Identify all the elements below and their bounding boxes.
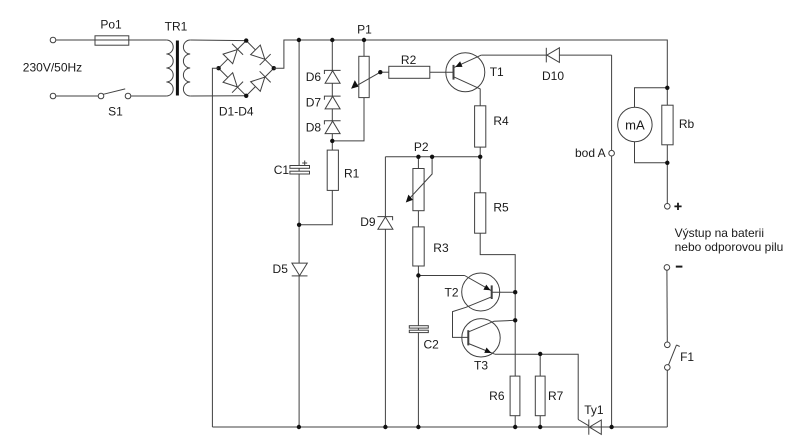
switch S1 [98, 93, 104, 99]
resistor R4 [475, 106, 486, 147]
svg-text:R6: R6 [489, 389, 505, 403]
zener diode D7 [325, 96, 340, 109]
junction P1 wiper [378, 70, 382, 74]
diode D5 [292, 263, 307, 276]
node bod A [609, 150, 615, 156]
node bridge right [272, 66, 276, 70]
svg-text:R2: R2 [401, 53, 417, 67]
svg-text:T1: T1 [490, 65, 504, 79]
junction T2 base [513, 290, 517, 294]
junction R1 bottom [297, 223, 301, 227]
bridge rectifier D1-D4 frame [219, 41, 274, 96]
junction top rail P1 [362, 38, 366, 42]
junction P2 top [416, 155, 420, 159]
svg-text:D1-D4: D1-D4 [219, 105, 254, 119]
resistor R1 [327, 150, 338, 190]
junction rail C2 [416, 425, 420, 429]
junction rail D9 [383, 425, 387, 429]
wire R3 junction to T2 emitter [418, 275, 464, 277]
zener diode D8 [325, 121, 340, 134]
wire bottom rail [212, 426, 667, 428]
svg-text:T3: T3 [474, 359, 488, 373]
svg-text:C2: C2 [424, 338, 440, 352]
svg-text:bod A: bod A [575, 146, 606, 160]
thyristor Ty1 [578, 420, 589, 426]
wire P1 wiper to R2 [380, 71, 389, 73]
svg-text:C1: C1 [274, 163, 290, 177]
minus output terminal [664, 265, 670, 271]
junction Rb bottom [665, 161, 669, 165]
node bridge left [216, 66, 220, 70]
wire P2 top [417, 157, 419, 169]
wire R7 bottom [539, 416, 541, 427]
wire secondary top to bridge [190, 39, 246, 42]
wire T1 collector to R4 R5 column [479, 106, 481, 193]
wire C1 D5 column [298, 40, 300, 427]
wire mA meter loop [635, 88, 668, 108]
potentiometer P1 [359, 56, 369, 97]
wire Rb branch [666, 88, 668, 163]
junction rail D5 [297, 425, 301, 429]
wire T1 emitter to D10 to bod A corner [481, 54, 611, 56]
transformer TR1 secondary winding [183, 40, 190, 96]
junction T3 collector [513, 318, 517, 322]
resistor R7 [535, 376, 545, 416]
junction rail bod A [609, 425, 613, 429]
transformer TR1 core [176, 41, 179, 96]
wire R6 bottom [514, 416, 516, 427]
input terminal top [50, 37, 56, 43]
svg-text:P2: P2 [414, 140, 429, 154]
wire bod A column [611, 55, 613, 427]
wire secondary bottom to bridge [190, 95, 246, 97]
svg-text:T2: T2 [444, 285, 458, 299]
junction R3 bottom [416, 273, 420, 277]
zener diode D6 [325, 71, 340, 84]
svg-text:TR1: TR1 [165, 20, 188, 34]
wire R5 bottom to T2 T3 column [480, 233, 515, 376]
junction R4 bottom [478, 155, 482, 159]
capacitor C1 [290, 166, 310, 169]
svg-text:D5: D5 [273, 262, 289, 276]
wire D9 column [384, 157, 386, 427]
fuse switch F1 [665, 342, 671, 348]
potentiometer P2 [413, 169, 424, 211]
capacitor C2 [409, 326, 428, 328]
wire P1 top [363, 40, 365, 56]
svg-text:mA: mA [625, 117, 645, 132]
svg-text:230V/50Hz: 230V/50Hz [23, 61, 82, 75]
junction R7 top [538, 352, 542, 356]
resistor R5 [475, 193, 486, 233]
wire P1 bottom [332, 98, 364, 141]
wire R4 bottom horizontal to P2 and D9 [385, 156, 480, 158]
zener diode D9 [378, 217, 393, 229]
transistor T2 [462, 273, 500, 311]
svg-text:D8: D8 [306, 121, 322, 135]
svg-text:R5: R5 [493, 201, 509, 215]
diode D1 top-left [222, 44, 243, 65]
svg-text:R7: R7 [548, 389, 564, 403]
wire R7 top [539, 354, 541, 376]
svg-text:D10: D10 [542, 69, 564, 83]
node bridge bottom [244, 94, 248, 98]
wire P2 to R3 [417, 211, 419, 227]
svg-text:F1: F1 [680, 350, 694, 364]
wire bridge plus up to top rail [274, 40, 299, 68]
wire T2 base to column [492, 291, 516, 293]
diode D4 bottom-right [250, 71, 271, 92]
svg-text:D6: D6 [306, 70, 322, 84]
transistor T1 [446, 53, 485, 92]
transistor T3 [462, 319, 500, 357]
wire T3 emitter to gate column [495, 354, 578, 419]
wire R2 to T1 [389, 71, 454, 73]
junction top rail C1 [297, 38, 301, 42]
junction R1 top [330, 139, 334, 143]
plus output terminal [665, 204, 671, 210]
svg-text:P1: P1 [357, 22, 372, 36]
svg-text:Výstup na baterii: Výstup na baterii [675, 226, 764, 240]
junction P2 wiper [430, 155, 434, 159]
svg-text:nebo odporovou pilu: nebo odporovou pilu [675, 240, 784, 254]
wire bridge minus to left rail [212, 68, 218, 427]
wire R1 branch [299, 141, 332, 225]
svg-text:Ty1: Ty1 [584, 403, 604, 417]
svg-text:Po1: Po1 [100, 18, 122, 32]
svg-text:Rb: Rb [679, 117, 695, 131]
wire bottom input line left [56, 95, 98, 97]
transformer TR1 primary winding [166, 40, 173, 96]
wire bottom input line right [131, 95, 167, 97]
junction rail R6 [513, 425, 517, 429]
svg-text:R3: R3 [433, 241, 449, 255]
diode D10 [547, 48, 560, 63]
wire F1 to bottom rail [666, 370, 668, 427]
resistor R3 [413, 227, 424, 266]
node bridge top [244, 38, 248, 42]
wire top input line [56, 39, 167, 41]
resistor R2 [389, 66, 430, 78]
junction rail R7 [538, 425, 542, 429]
diode D3 bottom-left [222, 72, 243, 93]
meter mA [618, 107, 652, 141]
diode D2 top-right [250, 44, 271, 65]
fuse Po1 [95, 36, 129, 45]
svg-text:S1: S1 [108, 105, 123, 119]
wire D6-D8 column [331, 40, 333, 141]
svg-text:D7: D7 [306, 95, 322, 109]
svg-text:R1: R1 [344, 166, 360, 180]
junction top rail D6 [330, 38, 334, 42]
wire R3 bottom to C2 [417, 266, 419, 427]
svg-text:D9: D9 [360, 215, 376, 229]
svg-text:R4: R4 [493, 114, 509, 128]
wire minus to F1 [666, 270, 668, 342]
resistor R6 [510, 376, 520, 416]
input terminal bottom [50, 93, 56, 99]
wire to plus terminal [666, 163, 668, 204]
wire top rail to right corner [284, 40, 667, 88]
resistor Rb [662, 105, 673, 145]
junction Rb top [665, 86, 669, 90]
